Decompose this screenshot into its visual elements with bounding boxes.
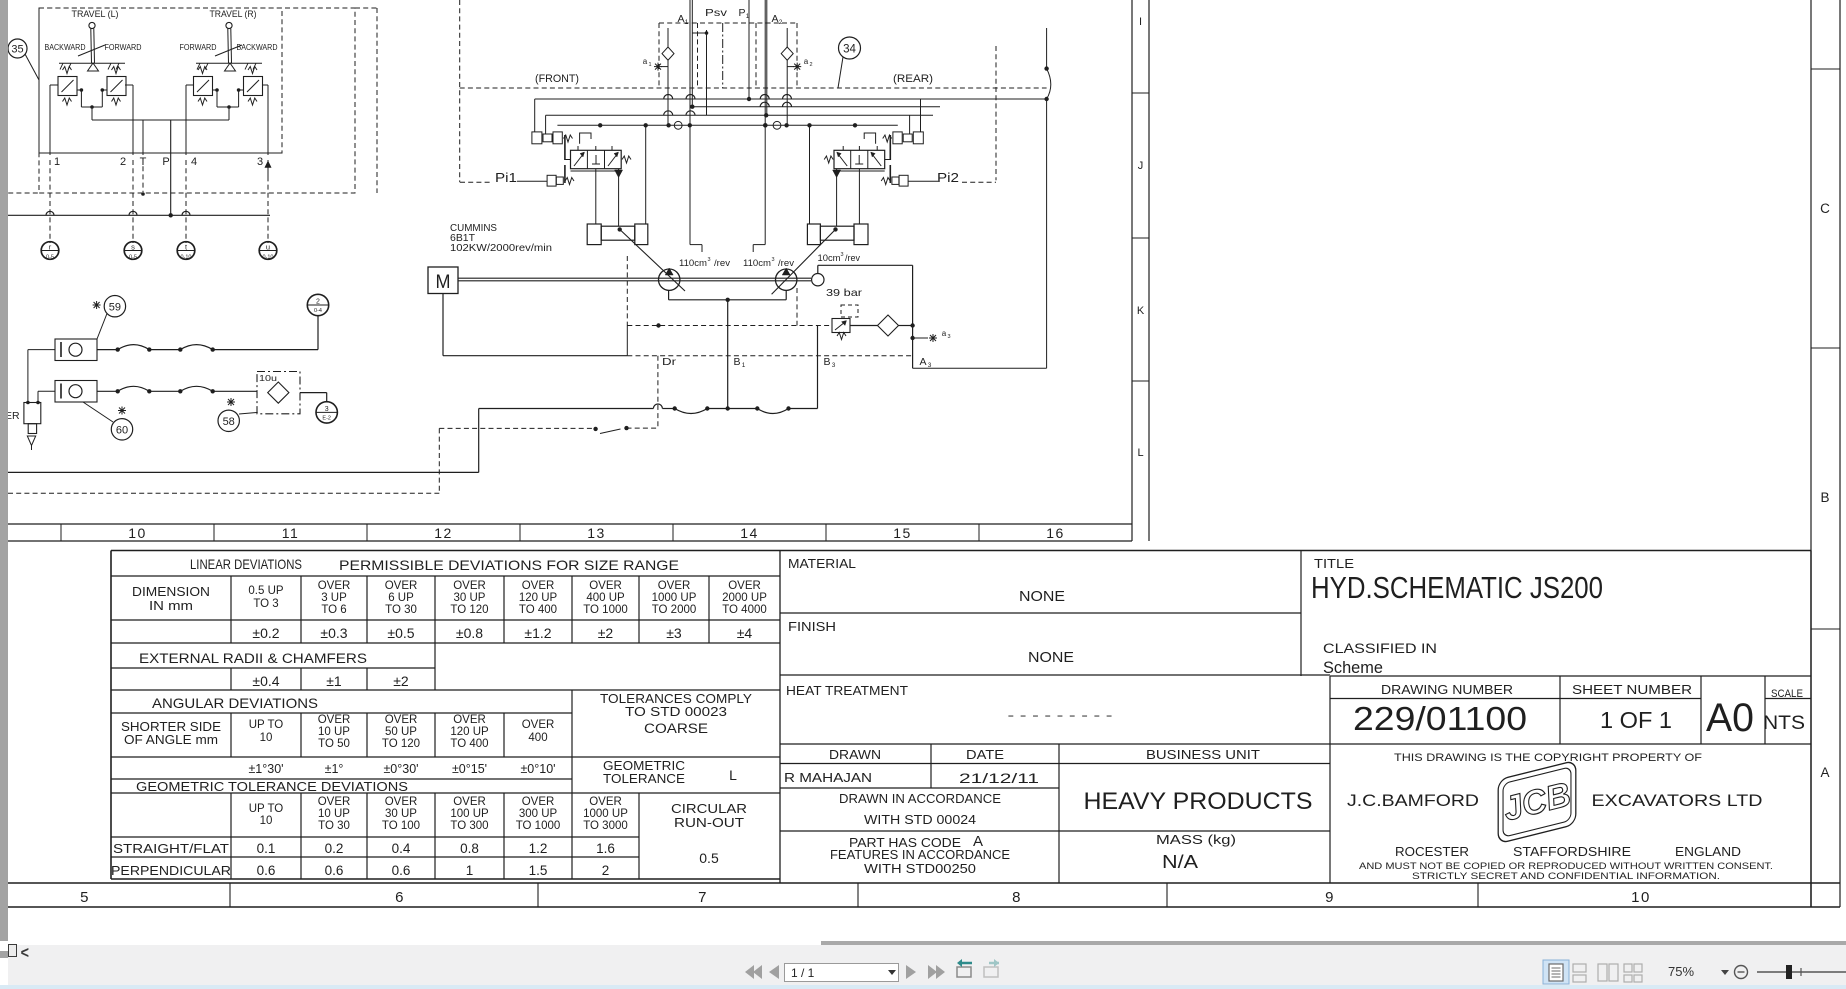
svg-text:FORWARD: FORWARD — [180, 43, 217, 52]
svg-text:BACKWARD: BACKWARD — [237, 43, 278, 52]
svg-text:OVER: OVER — [453, 580, 486, 592]
svg-text:34: 34 — [843, 44, 856, 56]
svg-text:FORWARD: FORWARD — [105, 43, 142, 52]
svg-text:6: 6 — [395, 889, 405, 906]
svg-text:0.5 UP: 0.5 UP — [248, 585, 283, 597]
svg-text:A: A — [1820, 765, 1829, 780]
svg-text:0-10: 0-10 — [180, 255, 191, 261]
svg-text:120 UP: 120 UP — [519, 592, 558, 604]
svg-text:2: 2 — [809, 62, 812, 68]
svg-text:J: J — [1138, 160, 1144, 172]
svg-text:OVER: OVER — [453, 714, 486, 726]
svg-text:TO 120: TO 120 — [382, 738, 420, 750]
svg-text:3: 3 — [928, 362, 932, 369]
svg-text:OVER: OVER — [318, 796, 351, 808]
svg-text:NONE: NONE — [1019, 588, 1065, 605]
svg-text:5: 5 — [80, 889, 90, 906]
svg-text:TO 400: TO 400 — [450, 738, 488, 750]
svg-text:TO 30: TO 30 — [318, 820, 350, 832]
svg-text:UP TO: UP TO — [249, 803, 284, 815]
svg-text:TO 2000: TO 2000 — [652, 604, 697, 616]
svg-text:TO 300: TO 300 — [450, 820, 488, 832]
svg-text:10: 10 — [260, 815, 273, 827]
svg-text:FINISH: FINISH — [788, 619, 836, 634]
svg-text:10: 10 — [260, 732, 273, 744]
svg-text:±1°: ±1° — [325, 762, 344, 776]
svg-text:EXTERNAL RADII & CHAMFERS: EXTERNAL RADII & CHAMFERS — [139, 651, 367, 666]
svg-text:3: 3 — [257, 156, 263, 168]
svg-text:I: I — [1139, 16, 1142, 28]
svg-text:10cm: 10cm — [818, 253, 841, 263]
svg-text:a: a — [942, 329, 947, 338]
svg-text:1.5: 1.5 — [529, 863, 548, 878]
svg-text:±4: ±4 — [737, 625, 753, 641]
svg-text:- - - - - - - - -: - - - - - - - - - — [1008, 708, 1113, 722]
svg-text:Scheme: Scheme — [1323, 659, 1383, 677]
svg-text:±0.3: ±0.3 — [320, 625, 347, 641]
svg-text:100 UP: 100 UP — [450, 808, 489, 820]
svg-text:L: L — [1137, 447, 1143, 459]
svg-text:39 bar: 39 bar — [826, 287, 863, 299]
svg-text:10: 10 — [128, 525, 147, 541]
svg-text:P: P — [162, 156, 169, 168]
svg-text:10u: 10u — [259, 374, 277, 383]
svg-text:1: 1 — [648, 62, 651, 68]
svg-text:s: s — [131, 243, 135, 252]
svg-text:TO 3000: TO 3000 — [583, 820, 628, 832]
svg-text:ANGULAR DEVIATIONS: ANGULAR DEVIATIONS — [152, 695, 318, 711]
svg-text:0-5: 0-5 — [129, 255, 137, 261]
svg-text:STRICTLY SECRET AND CONFIDENTI: STRICTLY SECRET AND CONFIDENTIAL INFORMA… — [1412, 871, 1720, 882]
svg-text:0.5: 0.5 — [699, 850, 719, 866]
svg-text:EXCAVATORS LTD: EXCAVATORS LTD — [1592, 791, 1763, 810]
svg-text:CIRCULAR: CIRCULAR — [671, 801, 747, 816]
svg-text:30 UP: 30 UP — [385, 808, 417, 820]
svg-text:ROCESTER: ROCESTER — [1395, 845, 1469, 859]
svg-text:400: 400 — [528, 732, 547, 744]
svg-text:DATE: DATE — [966, 748, 1004, 762]
svg-text:DRAWN: DRAWN — [829, 748, 881, 762]
svg-text:400 UP: 400 UP — [586, 592, 625, 604]
svg-text:OVER: OVER — [522, 580, 555, 592]
svg-text:1: 1 — [746, 13, 750, 20]
svg-text:9: 9 — [1325, 889, 1335, 906]
svg-text:±0.5: ±0.5 — [387, 625, 414, 641]
svg-text:N/A: N/A — [1162, 851, 1199, 872]
svg-text:2: 2 — [120, 156, 126, 168]
svg-text:3: 3 — [840, 252, 843, 258]
svg-text:OVER: OVER — [453, 796, 486, 808]
svg-text:P: P — [738, 7, 745, 19]
svg-text:1: 1 — [742, 362, 746, 369]
svg-text:±0.8: ±0.8 — [456, 625, 483, 641]
svg-text:TOLERANCES COMPLY: TOLERANCES COMPLY — [600, 692, 753, 706]
svg-text:TO 50: TO 50 — [318, 738, 350, 750]
svg-text:120 UP: 120 UP — [450, 726, 489, 738]
svg-text:300 UP: 300 UP — [519, 808, 558, 820]
svg-text:21/12/11: 21/12/11 — [959, 770, 1039, 786]
svg-text:OVER: OVER — [385, 796, 418, 808]
svg-text:TO 30: TO 30 — [385, 604, 417, 616]
svg-text:TO 6: TO 6 — [321, 604, 346, 616]
svg-text:0.4: 0.4 — [392, 841, 411, 856]
svg-text:±2: ±2 — [393, 673, 409, 689]
svg-text:Dr: Dr — [662, 356, 677, 368]
svg-text:35: 35 — [11, 44, 23, 56]
svg-text:Pi2: Pi2 — [937, 170, 959, 185]
svg-text:STRAIGHT/FLAT: STRAIGHT/FLAT — [113, 841, 229, 856]
svg-text:0.2: 0.2 — [325, 841, 344, 856]
svg-text:TO 400: TO 400 — [519, 604, 557, 616]
svg-text:0.6: 0.6 — [392, 863, 411, 878]
svg-text:OF ANGLE mm: OF ANGLE mm — [124, 733, 218, 747]
svg-text:229/01100: 229/01100 — [1353, 700, 1527, 737]
svg-text:R MAHAJAN: R MAHAJAN — [784, 770, 872, 785]
svg-text:1 OF 1: 1 OF 1 — [1600, 707, 1672, 733]
svg-text:THIS DRAWING IS THE COPYRIGHT: THIS DRAWING IS THE COPYRIGHT PROPERTY O… — [1394, 752, 1702, 764]
svg-text:CLASSIFIED IN: CLASSIFIED IN — [1323, 641, 1437, 656]
svg-text:UP TO: UP TO — [249, 719, 284, 731]
svg-text:E-2: E-2 — [322, 416, 331, 422]
svg-text:OVER: OVER — [385, 580, 418, 592]
svg-text:a: a — [643, 57, 648, 66]
svg-text:±0.2: ±0.2 — [252, 625, 279, 641]
svg-text:SHORTER SIDE: SHORTER SIDE — [121, 720, 221, 734]
svg-text:GEOMETRIC TOLERANCE DEVIATIONS: GEOMETRIC TOLERANCE DEVIATIONS — [136, 779, 408, 794]
svg-text:M: M — [436, 272, 451, 293]
svg-text:RUN-OUT: RUN-OUT — [674, 815, 744, 830]
svg-text:/rev: /rev — [778, 258, 795, 268]
svg-text:Pi1: Pi1 — [495, 170, 517, 185]
svg-text:0.6: 0.6 — [325, 863, 344, 878]
svg-text:3: 3 — [707, 257, 710, 263]
svg-text:1.6: 1.6 — [596, 841, 615, 856]
svg-text:MATERIAL: MATERIAL — [788, 556, 856, 571]
svg-text:OVER: OVER — [728, 580, 761, 592]
svg-text:15: 15 — [893, 525, 912, 541]
svg-text:C: C — [1820, 201, 1830, 216]
svg-text:TO 4000: TO 4000 — [722, 604, 767, 616]
svg-text:TO 100: TO 100 — [382, 820, 420, 832]
svg-text:LINEAR DEVIATIONS: LINEAR DEVIATIONS — [190, 556, 302, 572]
svg-text:PERMISSIBLE DEVIATIONS FOR SIZ: PERMISSIBLE DEVIATIONS FOR SIZE RANGE — [339, 557, 679, 573]
svg-text:ENGLAND: ENGLAND — [1675, 845, 1741, 859]
svg-text:16: 16 — [1046, 525, 1065, 541]
svg-text:L: L — [729, 767, 737, 783]
svg-text:±1°30': ±1°30' — [248, 762, 283, 776]
svg-text:TO 1000: TO 1000 — [516, 820, 561, 832]
svg-text:DIMENSION: DIMENSION — [132, 584, 210, 599]
svg-text:58: 58 — [223, 416, 235, 428]
svg-text:±1.2: ±1.2 — [524, 625, 551, 641]
svg-text:0.6: 0.6 — [257, 863, 276, 878]
svg-text:COARSE: COARSE — [644, 721, 708, 736]
svg-text:OVER: OVER — [385, 714, 418, 726]
svg-text:(FRONT): (FRONT) — [535, 73, 579, 85]
svg-text:0-4: 0-4 — [314, 308, 322, 314]
svg-text:30 UP: 30 UP — [454, 592, 486, 604]
svg-text:/rev: /rev — [845, 253, 860, 263]
svg-text:110cm: 110cm — [679, 258, 707, 268]
svg-text:1: 1 — [54, 156, 60, 168]
svg-text:NONE: NONE — [1028, 649, 1074, 666]
svg-text:59: 59 — [109, 302, 121, 314]
svg-text:0.1: 0.1 — [257, 841, 276, 856]
svg-text:1000 UP: 1000 UP — [583, 808, 628, 820]
svg-text:7: 7 — [698, 889, 708, 906]
svg-text:DRAWN IN ACCORDANCE: DRAWN IN ACCORDANCE — [839, 792, 1001, 806]
svg-text:±2: ±2 — [598, 625, 614, 641]
svg-text:SCALE: SCALE — [1771, 688, 1803, 700]
svg-text:1000 UP: 1000 UP — [652, 592, 697, 604]
svg-text:8: 8 — [1012, 889, 1022, 906]
svg-text:2000 UP: 2000 UP — [722, 592, 767, 604]
svg-text:BACKWARD: BACKWARD — [45, 43, 86, 52]
svg-text:B: B — [823, 356, 830, 368]
svg-text:STAFFORDSHIRE: STAFFORDSHIRE — [1513, 845, 1631, 859]
svg-text:10: 10 — [1631, 889, 1651, 906]
svg-text:K: K — [1137, 305, 1145, 317]
svg-text:±0°30': ±0°30' — [383, 762, 418, 776]
svg-text:DRAWING NUMBER: DRAWING NUMBER — [1381, 683, 1513, 697]
svg-text:TITLE: TITLE — [1314, 556, 1354, 571]
svg-text:u: u — [266, 243, 270, 252]
svg-text:TO 120: TO 120 — [450, 604, 488, 616]
svg-text:GEOMETRIC: GEOMETRIC — [603, 759, 685, 773]
svg-text:±3: ±3 — [666, 625, 682, 641]
svg-text:HEAVY PRODUCTS: HEAVY PRODUCTS — [1084, 788, 1313, 815]
svg-text:3: 3 — [832, 362, 836, 369]
svg-text:102KW/2000rev/min: 102KW/2000rev/min — [450, 243, 552, 254]
svg-text:WITH STD 00024: WITH STD 00024 — [864, 813, 976, 827]
svg-text:B: B — [1820, 490, 1829, 505]
svg-text:60: 60 — [116, 425, 128, 437]
svg-text:2: 2 — [602, 863, 610, 878]
svg-text:PERPENDICULAR: PERPENDICULAR — [111, 863, 231, 878]
svg-text:110cm: 110cm — [743, 258, 771, 268]
svg-text:(REAR): (REAR) — [893, 73, 933, 85]
svg-text:J.C.BAMFORD: J.C.BAMFORD — [1347, 791, 1479, 810]
svg-text:1.2: 1.2 — [529, 841, 548, 856]
svg-text:12: 12 — [434, 525, 453, 541]
svg-text:a: a — [804, 57, 809, 66]
svg-text:A: A — [919, 356, 926, 368]
svg-text:±0.4: ±0.4 — [252, 673, 279, 689]
svg-text:±1: ±1 — [326, 673, 342, 689]
svg-text:50 UP: 50 UP — [385, 726, 417, 738]
svg-text:SHEET NUMBER: SHEET NUMBER — [1572, 683, 1692, 697]
svg-text:3: 3 — [771, 257, 774, 263]
svg-text:0-10: 0-10 — [262, 255, 273, 261]
svg-text:0.8: 0.8 — [460, 841, 479, 856]
svg-text:1: 1 — [466, 863, 474, 878]
svg-text:13: 13 — [587, 525, 606, 541]
svg-text:/rev: /rev — [714, 258, 731, 268]
svg-text:HYD.SCHEMATIC JS200: HYD.SCHEMATIC JS200 — [1311, 570, 1603, 605]
svg-text:TRAVEL (R): TRAVEL (R) — [210, 9, 257, 20]
svg-text:±0°10': ±0°10' — [520, 762, 555, 776]
svg-text:10 UP: 10 UP — [318, 726, 350, 738]
svg-text:B: B — [733, 356, 740, 368]
svg-text:4: 4 — [191, 156, 197, 168]
svg-text:TOLERANCE: TOLERANCE — [603, 772, 685, 786]
svg-text:6 UP: 6 UP — [388, 592, 414, 604]
svg-text:FEATURES IN ACCORDANCE: FEATURES IN ACCORDANCE — [830, 848, 1010, 862]
svg-text:Psv: Psv — [705, 7, 728, 19]
svg-text:2: 2 — [316, 299, 320, 306]
svg-text:3 UP: 3 UP — [321, 592, 347, 604]
svg-text:14: 14 — [740, 525, 759, 541]
svg-text:IN mm: IN mm — [149, 598, 193, 613]
svg-text:11: 11 — [282, 525, 300, 541]
svg-text:HEAT TREATMENT: HEAT TREATMENT — [786, 683, 908, 698]
svg-text:OVER: OVER — [658, 580, 691, 592]
svg-text:TO STD 00023: TO STD 00023 — [625, 705, 727, 719]
svg-text:±0°15': ±0°15' — [452, 762, 487, 776]
svg-text:TO 3: TO 3 — [253, 598, 278, 610]
svg-text:A0: A0 — [1706, 696, 1754, 740]
svg-text:TO 1000: TO 1000 — [583, 604, 628, 616]
svg-text:OVER: OVER — [589, 796, 622, 808]
svg-text:OVER: OVER — [589, 580, 622, 592]
svg-text:BUSINESS UNIT: BUSINESS UNIT — [1146, 748, 1260, 762]
svg-text:JCB: JCB — [1499, 775, 1574, 828]
svg-text:OVER: OVER — [522, 796, 555, 808]
svg-text:3: 3 — [947, 334, 950, 340]
svg-text:OVER: OVER — [522, 719, 555, 731]
svg-text:10 UP: 10 UP — [318, 808, 350, 820]
svg-text:MASS (kg): MASS (kg) — [1156, 832, 1236, 847]
svg-text:TRAVEL (L): TRAVEL (L) — [72, 9, 119, 20]
svg-text:NTS: NTS — [1763, 713, 1805, 734]
svg-text:3: 3 — [325, 406, 329, 413]
svg-text:WITH STD00250: WITH STD00250 — [864, 862, 976, 876]
svg-text:OVER: OVER — [318, 580, 351, 592]
svg-text:0-5: 0-5 — [46, 255, 54, 261]
svg-text:OVER: OVER — [318, 714, 351, 726]
